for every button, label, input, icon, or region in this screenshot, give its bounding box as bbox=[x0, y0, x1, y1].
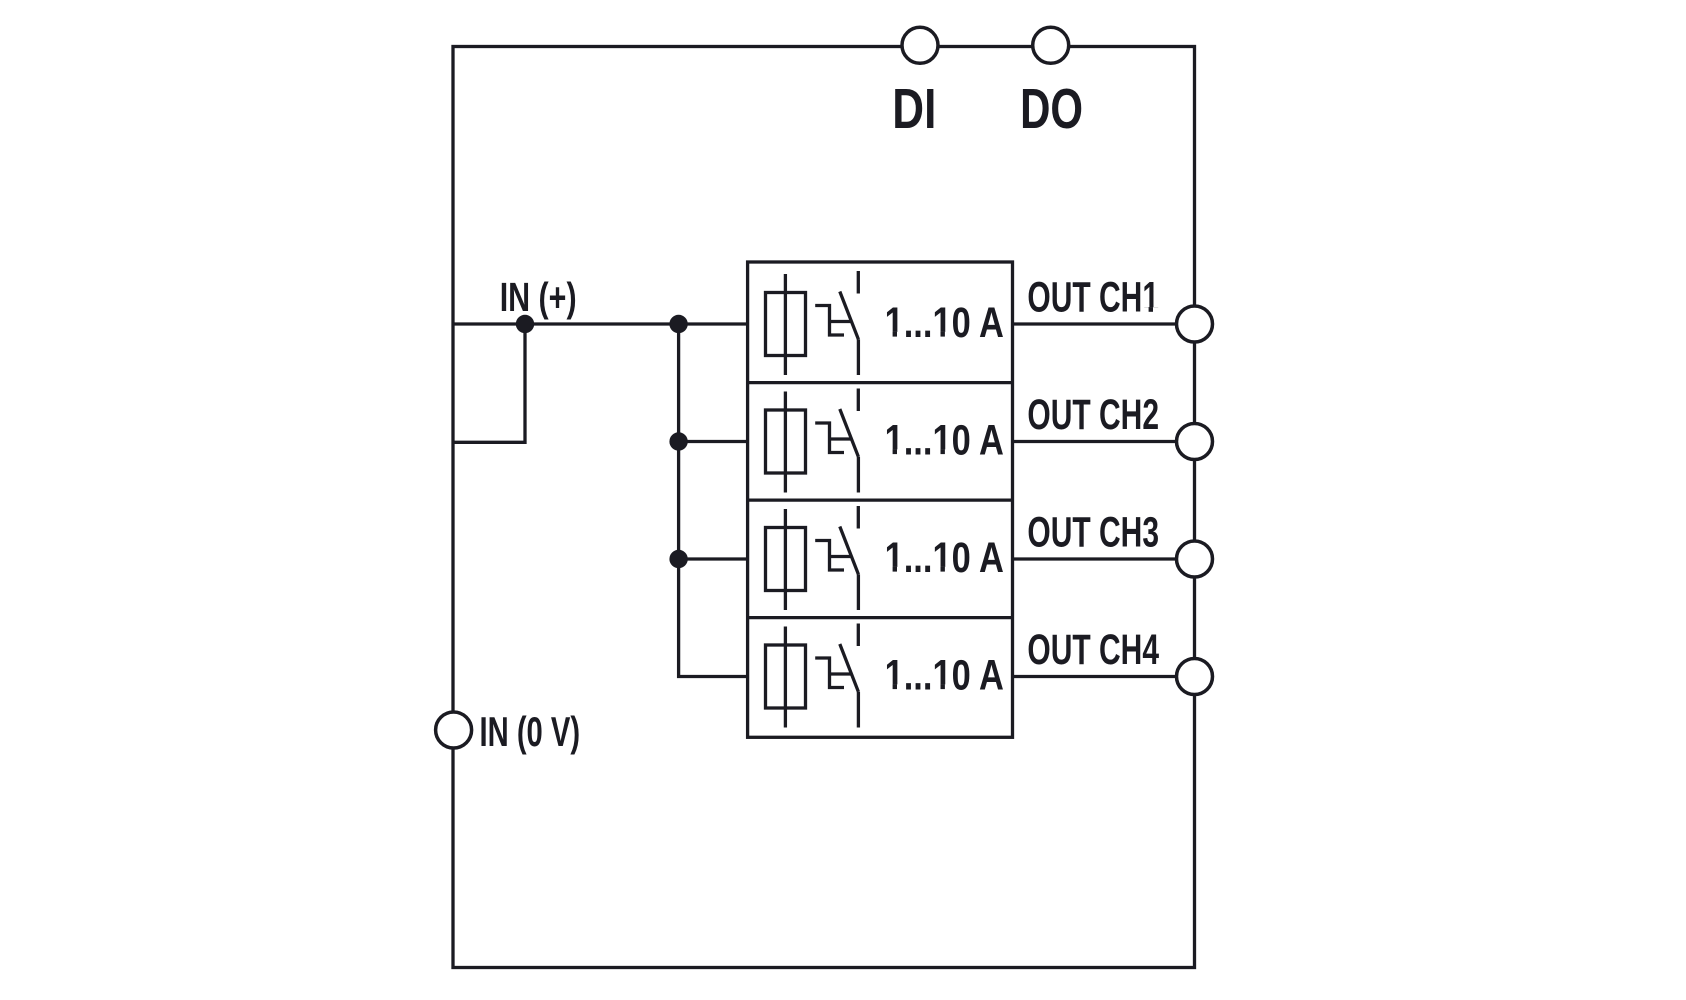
channel block stack outline bbox=[748, 262, 1013, 737]
terminal DI bbox=[902, 27, 938, 63]
wire OUT CH2 from block to right border bbox=[1013, 440, 1195, 443]
switch S1 trip latch bbox=[815, 306, 844, 336]
junction node on IN(+) bus at x=525 bbox=[516, 315, 534, 333]
separator block1/block2 bbox=[748, 381, 1013, 384]
terminal OUT CH3 bbox=[1177, 541, 1213, 577]
wire stub to channel 2 bbox=[679, 440, 748, 443]
switch S1 blade bbox=[840, 292, 859, 340]
wire stub to channel 3 bbox=[679, 557, 748, 560]
electronic breaker channel 2 symbols bbox=[766, 389, 859, 493]
terminal DO bbox=[1033, 27, 1069, 63]
electronic breaker channel 1 symbols (fuse F1 + trip switch S1) bbox=[766, 271, 859, 375]
switch S1 upper contact bbox=[857, 271, 860, 294]
wire OUT CH3 from block to right border bbox=[1013, 557, 1195, 560]
terminal IN (0 V) bbox=[436, 712, 472, 748]
svg-text:1...10 A: 1...10 A bbox=[885, 299, 1004, 347]
svg-text:DI: DI bbox=[892, 77, 936, 141]
svg-text:1...10 A: 1...10 A bbox=[885, 417, 1004, 465]
svg-text:DO: DO bbox=[1020, 77, 1083, 141]
svg-text:OUT CH1: OUT CH1 bbox=[1027, 274, 1159, 322]
digit-1 foot serif removal patches (DIN-style plain stem) bbox=[885, 332, 951, 338]
junction node column/CH2 bbox=[669, 432, 687, 450]
fuse F1 body bbox=[766, 293, 806, 356]
wire OUT CH4 from block to right border bbox=[1013, 675, 1195, 678]
terminal OUT CH4 bbox=[1177, 659, 1213, 695]
electronic breaker channel 3 symbols bbox=[766, 506, 859, 610]
terminal OUT CH1 bbox=[1177, 306, 1213, 342]
svg-text:1...10 A: 1...10 A bbox=[885, 534, 1004, 582]
switch S1 lower contact bbox=[857, 339, 860, 375]
svg-text:IN (0 V): IN (0 V) bbox=[480, 708, 581, 755]
wire OUT CH1 from block to right border bbox=[1013, 322, 1195, 325]
separator block3/block4 bbox=[748, 616, 1013, 619]
device enclosure outline bbox=[453, 47, 1195, 968]
switch S1 latch release bar bbox=[830, 320, 852, 323]
svg-text:1...10 A: 1...10 A bbox=[885, 652, 1004, 700]
svg-text:OUT CH3: OUT CH3 bbox=[1027, 509, 1159, 557]
fuse F1 lead bbox=[784, 274, 787, 375]
wire IN(+) bus from left border to channel block 1 bbox=[453, 322, 748, 325]
svg-text:IN (+): IN (+) bbox=[500, 274, 577, 320]
wire step loop from node at (525,324) down and left to border bbox=[453, 324, 525, 442]
electronic breaker channel 4 symbols bbox=[766, 624, 859, 728]
junction node bus/column bbox=[669, 315, 687, 333]
wire distribution column at x=678.6 bbox=[679, 324, 748, 677]
terminal OUT CH2 bbox=[1177, 424, 1213, 460]
separator block2/block3 bbox=[748, 498, 1013, 501]
junction node column/CH3 bbox=[669, 550, 687, 568]
svg-text:OUT CH4: OUT CH4 bbox=[1027, 626, 1159, 674]
svg-text:OUT CH2: OUT CH2 bbox=[1027, 391, 1159, 439]
